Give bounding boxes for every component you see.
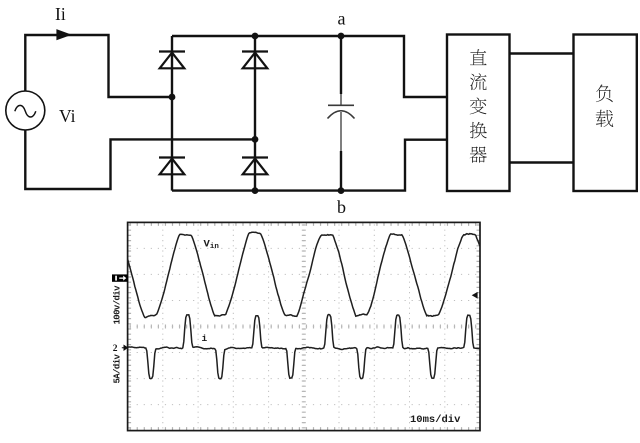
junction bridge AC left [169, 94, 176, 101]
node a junction [338, 33, 345, 40]
svg-text:2: 2 [113, 344, 118, 354]
diode D4 [242, 158, 268, 175]
svg-text:Vin: Vin [204, 239, 220, 252]
svg-text:10ms/div: 10ms/div [410, 414, 461, 426]
border tick marks [129, 224, 479, 429]
wire top rail node a to converter [172, 36, 447, 97]
oscilloscope screen frame [128, 222, 480, 430]
label load [596, 85, 614, 128]
ac source Vi circle [6, 91, 45, 130]
node b junction [338, 187, 345, 194]
svg-text:5A/div: 5A/div [113, 353, 123, 383]
block DC converter box [447, 35, 510, 192]
wire bridge left branch [171, 36, 173, 191]
wire capacitor up to node b [340, 151, 342, 191]
svg-text:Vi: Vi [59, 106, 76, 126]
wire node a down to capacitor [340, 36, 342, 94]
capacitor C top plate [328, 104, 354, 106]
current direction arrow Ii [56, 29, 71, 40]
diode D3 [159, 158, 185, 175]
svg-text:Ii: Ii [55, 4, 66, 24]
capacitor lead bottom [340, 112, 342, 151]
trace Vin waveform [128, 232, 480, 317]
wire bottom rail node b to converter [172, 140, 447, 191]
wire source top to bridge AC node [25, 35, 172, 97]
svg-text:i: i [202, 333, 208, 344]
diode D2 [242, 52, 268, 69]
wire converter to load top [510, 52, 574, 54]
trigger level arrow [472, 292, 478, 299]
capacitor C bottom curved plate [328, 111, 355, 119]
svg-text:100v/div: 100v/div [113, 285, 123, 325]
trace i waveform [128, 315, 480, 379]
wire source bottom to bridge AC node [25, 130, 255, 189]
wire bridge right branch [254, 36, 256, 191]
junction top rail right branch [252, 33, 259, 40]
block load box [574, 35, 637, 192]
svg-text:a: a [338, 8, 346, 28]
wire converter to load bottom [510, 161, 574, 163]
junction bottom rail right branch [252, 187, 259, 194]
diode D1 [159, 52, 185, 69]
capacitor lead top [340, 94, 342, 105]
oscilloscope graticule grid [130, 224, 479, 429]
channel 1 marker [112, 274, 128, 281]
ac source sine symbol [15, 105, 36, 117]
center graticule ticks [130, 224, 479, 429]
label DC converter (direct-current converter) [470, 49, 487, 163]
junction bridge AC right [252, 136, 259, 143]
svg-text:b: b [337, 197, 346, 217]
